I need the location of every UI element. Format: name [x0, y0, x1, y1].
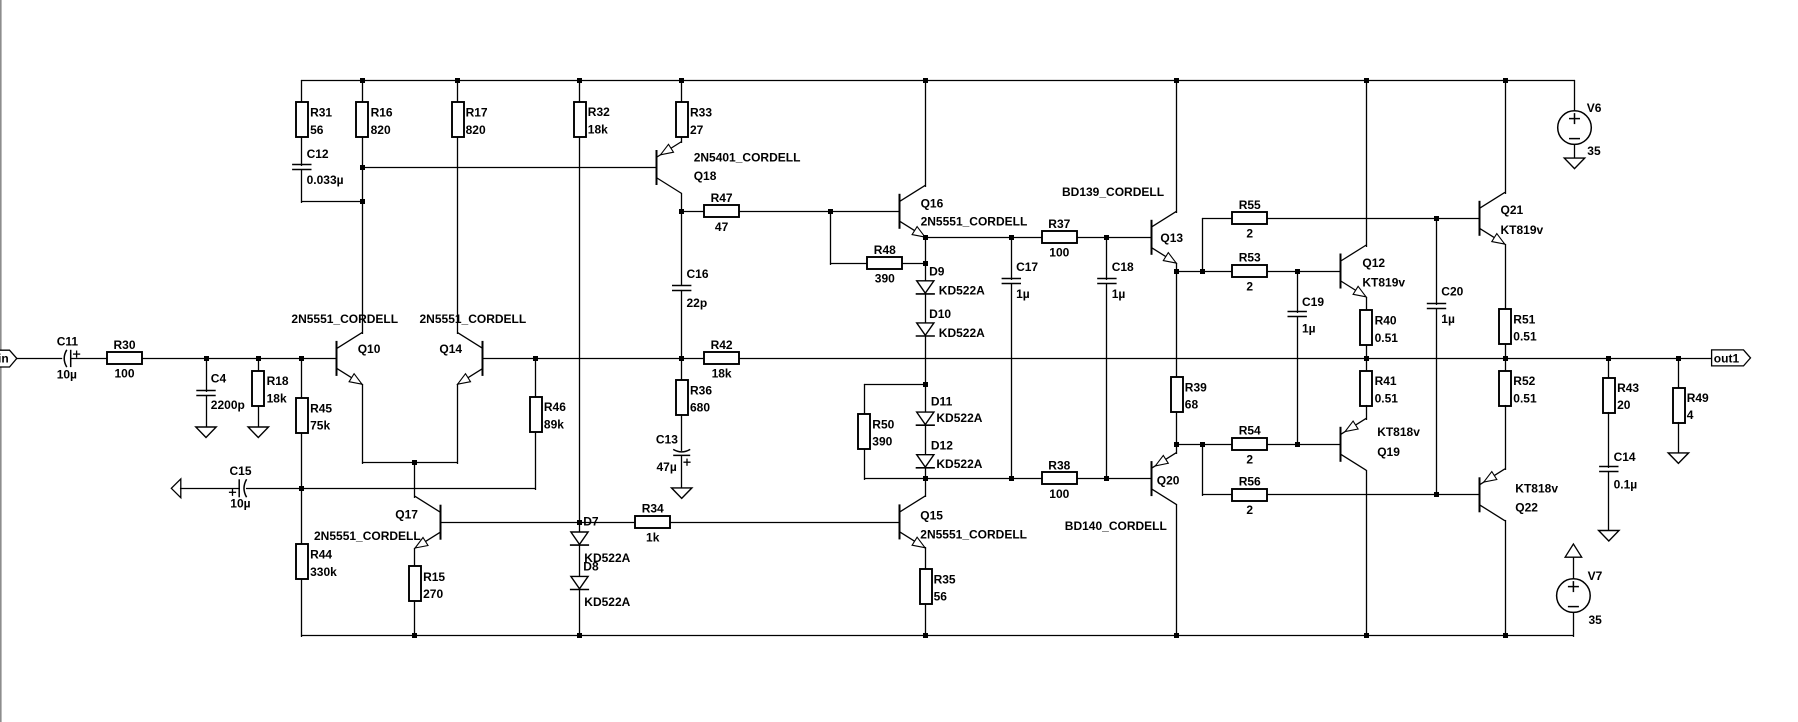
svg-text:R45: R45 [310, 401, 332, 415]
wire V6 top lead [1574, 80, 1576, 112]
resistor R16 820 [356, 102, 393, 137]
capacitor C16 22p [672, 267, 709, 310]
diode D7 KD522A [570, 514, 631, 564]
wire Q15 collector lead [925, 478, 927, 497]
junction R55 branch bottom [1200, 269, 1205, 274]
svg-text:R43: R43 [1617, 381, 1639, 395]
junction top rail R32 [577, 78, 582, 83]
wire R34 line left [579, 522, 636, 524]
junction C16/R36 node on signal line [679, 356, 684, 361]
canvas left border [0, 0, 2, 722]
wire Q13 emitter lead [1176, 263, 1178, 273]
resistor R44 330k [296, 544, 337, 579]
wire D10-D11 lead [925, 336, 927, 414]
capacitor C20 1µ [1427, 285, 1464, 326]
svg-text:89k: 89k [544, 417, 564, 431]
capacitor C4 2200p [196, 371, 245, 412]
resistor R32 18k [574, 102, 610, 137]
wire R50 top horizontal [864, 384, 926, 386]
svg-text:0.51: 0.51 [1375, 392, 1399, 406]
wire R18 column [258, 358, 260, 429]
svg-text:KD522A: KD522A [939, 326, 985, 340]
junction top rail R16 [360, 78, 365, 83]
resistor R56 2 [1232, 475, 1267, 518]
connector arrow C15 [171, 479, 181, 498]
svg-text:35: 35 [1589, 613, 1603, 627]
svg-text:R40: R40 [1375, 314, 1397, 328]
ground V6 ground [1564, 158, 1584, 169]
wire R33 leads [681, 80, 683, 143]
wire R45 column [301, 358, 303, 490]
junction bottom rail R15 [412, 633, 417, 638]
junction driver bottom node [1174, 442, 1179, 447]
transistor Q10 2N5551 [291, 312, 398, 385]
svg-text:BD140_CORDELL: BD140_CORDELL [1065, 519, 1167, 533]
transistor Q15 2N5551 [900, 496, 1028, 548]
wire Q17 emitter lead [414, 548, 416, 637]
svg-text:390: 390 [875, 272, 895, 286]
wire D11-D12 lead [925, 425, 927, 456]
wire D7-D8 lead [579, 545, 581, 578]
junction driver top node [1174, 269, 1179, 274]
svg-text:47: 47 [715, 220, 729, 234]
resistor R36 680 [676, 380, 712, 415]
wire C12 bottom lead [301, 170, 303, 203]
svg-text:R38: R38 [1048, 458, 1070, 472]
junction C20 bottom node [1434, 492, 1439, 497]
svg-text:0.033µ: 0.033µ [307, 173, 344, 187]
junction R18 node [256, 356, 261, 361]
svg-text:56: 56 [934, 590, 948, 604]
svg-text:KD522A: KD522A [939, 283, 985, 297]
svg-text:R54: R54 [1239, 424, 1261, 438]
wire R32 column [579, 80, 581, 524]
svg-text:C4: C4 [211, 371, 227, 385]
diode D11 KD522A [916, 394, 983, 425]
wire Q16 collector lead [925, 80, 927, 187]
wire R46 column [535, 358, 537, 490]
junction top rail Q16 [923, 78, 928, 83]
svg-text:Q18: Q18 [694, 169, 717, 183]
junction D9 anode node [923, 261, 928, 266]
capacitor C14 0.1µ [1599, 450, 1637, 491]
svg-text:2: 2 [1246, 279, 1253, 293]
svg-text:R39: R39 [1185, 380, 1207, 394]
wire R52 bottom lead [1505, 405, 1507, 470]
wire C16 bottom lead [681, 290, 683, 360]
capacitor C17 1µ [1002, 260, 1039, 301]
junction R48 tap [828, 209, 833, 214]
wire R50 bottom vertical [864, 449, 866, 480]
junction tail node [412, 460, 417, 465]
junction C19 top node [1295, 269, 1300, 274]
svg-text:100: 100 [1049, 487, 1069, 501]
svg-text:KT818v: KT818v [1377, 425, 1420, 439]
svg-text:Q19: Q19 [1377, 445, 1400, 459]
wire C17 top lead [1011, 237, 1013, 280]
svg-text:R53: R53 [1239, 251, 1261, 265]
resistor R40 0.51 [1360, 310, 1398, 345]
svg-text:270: 270 [423, 587, 443, 601]
resistor R47 47 [704, 191, 739, 234]
transistor Q21 KT819v [1480, 192, 1544, 244]
wire C12 to R16 column [301, 201, 363, 203]
wire C18 bottom lead [1106, 283, 1108, 480]
ground C14 ground [1599, 531, 1619, 542]
svg-text:1µ: 1µ [1302, 322, 1316, 336]
resistor R17 820 [452, 102, 488, 137]
resistor R30 100 [107, 338, 142, 381]
svg-text:D12: D12 [931, 439, 953, 453]
ground C4 ground [196, 427, 216, 438]
svg-text:0.51: 0.51 [1513, 330, 1537, 344]
wire Q21 emitter lead [1505, 244, 1507, 311]
svg-text:C16: C16 [687, 267, 709, 281]
svg-text:68: 68 [1185, 398, 1199, 412]
svg-text:820: 820 [371, 123, 391, 137]
junction VAS bias top node [923, 235, 928, 240]
svg-text:KD522A: KD522A [936, 411, 982, 425]
junction bottom rail D8 [577, 633, 582, 638]
resistor R41 0.51 [1360, 371, 1398, 406]
wire Q13 collector lead [1176, 80, 1178, 213]
svg-text:V7: V7 [1588, 569, 1603, 583]
wire D9-D10 lead [925, 293, 927, 324]
junction top rail Q21 [1503, 78, 1508, 83]
diode D8 KD522A [570, 560, 631, 609]
wire R31 top lead [301, 80, 303, 166]
svg-text:R34: R34 [642, 502, 664, 516]
svg-text:C15: C15 [230, 464, 252, 478]
diode D9 KD522A [916, 265, 985, 298]
resistor R15 270 [409, 566, 445, 601]
svg-text:390: 390 [872, 435, 892, 449]
wire R52 top lead [1505, 358, 1507, 372]
svg-text:Q10: Q10 [358, 342, 381, 356]
resistor R37 100 [1042, 217, 1077, 260]
diode D12 KD522A [916, 439, 983, 471]
wire R16 column [362, 80, 364, 334]
resistor R46 89k [530, 397, 566, 432]
resistor R49 4 [1673, 388, 1709, 423]
wire R48 branch vertical [830, 211, 832, 265]
svg-text:KT818v: KT818v [1515, 481, 1558, 495]
capacitor C11 10µ [57, 334, 80, 381]
wire C19 bottom lead [1297, 316, 1299, 446]
svg-text:Q14: Q14 [439, 342, 462, 356]
resistor R38 100 [1042, 458, 1077, 501]
junction bottom rail Q20 [1174, 633, 1179, 638]
wire D8 bottom lead [579, 589, 581, 637]
wire R41 bottom lead [1366, 405, 1368, 420]
wire R49 bottom lead [1678, 422, 1680, 454]
svg-text:18k: 18k [588, 123, 608, 137]
svg-text:27: 27 [690, 123, 704, 137]
junction R45 node [299, 356, 304, 361]
svg-text:C18: C18 [1112, 260, 1134, 274]
svg-text:22p: 22p [687, 296, 708, 310]
resistor R34 1k [635, 502, 670, 545]
wire R44 column [301, 488, 303, 637]
wire R51 bottom lead [1505, 344, 1507, 360]
junction top rail R33 [679, 78, 684, 83]
svg-text:2N5401_CORDELL: 2N5401_CORDELL [694, 151, 801, 165]
junction bottom rail R35 [923, 633, 928, 638]
resistor R31 56 [296, 102, 332, 137]
wire C4 top lead [206, 358, 208, 392]
wire Q19 collector lead [1366, 470, 1368, 637]
wire Q15 emitter lead [925, 547, 927, 637]
svg-text:20: 20 [1617, 398, 1631, 412]
junction feedback node [299, 486, 304, 491]
wire Q20 emitter lead [1176, 444, 1178, 454]
capacitor C11 gap [62, 348, 70, 368]
svg-text:C20: C20 [1441, 285, 1463, 299]
capacitor C12 0.033µ [292, 147, 344, 187]
wire Q18 collector lead [681, 193, 683, 213]
wire V7 top lead [1573, 557, 1575, 580]
wire R36 leads [681, 358, 683, 451]
svg-text:Q21: Q21 [1501, 203, 1524, 217]
svg-text:1µ: 1µ [1441, 312, 1455, 326]
svg-text:Q12: Q12 [1362, 256, 1385, 270]
voltage source V7 35 [1557, 569, 1603, 627]
wire Q20 collector lead [1176, 504, 1178, 637]
transistor Q14 2N5551 [420, 312, 527, 385]
transistor Q13 BD139 [1062, 185, 1183, 263]
svg-text:R35: R35 [934, 572, 956, 586]
svg-text:Q13: Q13 [1160, 231, 1183, 245]
junction output node R49 [1676, 356, 1681, 361]
junction C4 node [204, 356, 209, 361]
svg-text:4: 4 [1687, 408, 1694, 422]
svg-text:BD139_CORDELL: BD139_CORDELL [1062, 185, 1164, 199]
transistor Q22 KT818v [1480, 469, 1559, 521]
wire R47 line left [681, 211, 704, 213]
junction Q18 collector node [679, 209, 684, 214]
svg-text:R17: R17 [466, 106, 488, 120]
svg-text:C14: C14 [1614, 450, 1636, 464]
junction top rail R17 [455, 78, 460, 83]
wire R49 top lead [1678, 358, 1680, 389]
svg-text:2200p: 2200p [211, 398, 245, 412]
svg-text:2N5551_CORDELL: 2N5551_CORDELL [291, 312, 398, 326]
svg-text:R50: R50 [872, 417, 894, 431]
connector arrow V7 [1565, 544, 1582, 557]
wire C18 top lead [1106, 237, 1108, 280]
junction C17 bottom node [1009, 476, 1014, 481]
svg-text:D8: D8 [583, 560, 599, 574]
resistor R39 68 [1171, 377, 1207, 412]
svg-text:D11: D11 [931, 394, 953, 408]
svg-text:C11: C11 [57, 334, 79, 348]
wire Q10 emitter lead [362, 384, 364, 464]
svg-text:100: 100 [1049, 246, 1069, 260]
resistor R43 20 [1603, 378, 1639, 413]
junction lower bias node [923, 476, 928, 481]
resistor R51 0.51 [1499, 309, 1537, 344]
svg-text:C13: C13 [656, 433, 678, 447]
svg-text:R41: R41 [1375, 374, 1397, 388]
wire C15 left lead [180, 488, 240, 490]
capacitor C18 1µ [1097, 260, 1134, 301]
resistor R48 390 [867, 243, 902, 286]
transistor Q19 KT818v [1341, 418, 1421, 470]
wire V7 bottom lead [1573, 612, 1575, 637]
wire C4 bottom lead [206, 395, 208, 429]
junction C19 bottom node [1295, 442, 1300, 447]
resistor R33 27 [676, 102, 712, 137]
svg-text:R16: R16 [371, 106, 393, 120]
wire D7 top lead [579, 522, 581, 534]
wire feedback line [246, 488, 536, 490]
wire R55 branch vertical [1202, 218, 1204, 273]
wire R53 line [1176, 271, 1341, 273]
svg-text:1k: 1k [646, 530, 660, 544]
junction C18 bottom node [1104, 476, 1109, 481]
svg-text:C17: C17 [1016, 260, 1038, 274]
resistor R52 0.51 [1499, 371, 1537, 406]
wire Q18 base line [362, 167, 657, 169]
svg-text:Q17: Q17 [395, 507, 418, 521]
wire R54 line [1176, 444, 1341, 446]
junction output node R51 [1503, 356, 1508, 361]
port out1 [1712, 350, 1751, 366]
svg-text:75k: 75k [310, 419, 330, 433]
svg-text:680: 680 [690, 401, 710, 415]
junction C20 top node [1434, 216, 1439, 221]
junction R56 branch top [1200, 442, 1205, 447]
svg-text:KD522A: KD522A [936, 457, 982, 471]
svg-text:R15: R15 [423, 570, 445, 584]
junction C17 top node [1009, 235, 1014, 240]
wire emitter tie line [362, 462, 458, 464]
svg-text:0.51: 0.51 [1375, 331, 1399, 345]
svg-text:R55: R55 [1239, 198, 1261, 212]
resistor R50 390 [858, 414, 895, 449]
wire R50 top vertical [864, 384, 866, 416]
wire C19 top lead [1297, 271, 1299, 313]
svg-text:R42: R42 [711, 338, 733, 352]
junction R50 top node [923, 382, 928, 387]
transistor Q16 2N5551 [900, 185, 1028, 237]
wire V6 bottom lead [1574, 144, 1576, 160]
transistor Q12 KT819v [1341, 245, 1406, 297]
wire input line [16, 358, 337, 360]
capacitor C13 47µ [656, 433, 691, 474]
wire R56 branch vertical [1202, 444, 1204, 496]
svg-text:2N5551_CORDELL: 2N5551_CORDELL [920, 528, 1027, 542]
transistor Q18 2N5401 [656, 142, 800, 194]
svg-text:R44: R44 [310, 548, 332, 562]
svg-text:R33: R33 [690, 106, 712, 120]
wire R38 line [925, 478, 1152, 480]
svg-text:R36: R36 [690, 383, 712, 397]
svg-text:35: 35 [1587, 144, 1601, 158]
svg-text:KD522A: KD522A [584, 595, 630, 609]
svg-text:330k: 330k [310, 565, 337, 579]
wire C20 bottom lead [1436, 308, 1438, 496]
svg-text:18k: 18k [267, 391, 287, 405]
resistor R54 2 [1232, 424, 1267, 467]
wire C14 bottom lead [1608, 471, 1610, 532]
capacitor C19 1µ [1288, 295, 1325, 336]
svg-text:2: 2 [1246, 227, 1253, 241]
wire C16 top lead [681, 211, 683, 285]
svg-text:Q15: Q15 [920, 508, 943, 522]
svg-text:KT819v: KT819v [1501, 223, 1544, 237]
svg-text:KT819v: KT819v [1362, 275, 1405, 289]
svg-text:0.1µ: 0.1µ [1614, 477, 1638, 491]
wire C20 top lead [1436, 218, 1438, 305]
resistor R35 56 [920, 569, 956, 604]
junction D7 node [577, 520, 582, 525]
svg-text:1µ: 1µ [1112, 287, 1126, 301]
svg-text:R46: R46 [544, 400, 566, 414]
wire Q14 emitter lead [457, 384, 459, 464]
wire C13 bottom lead [681, 455, 683, 489]
wire Q22 collector lead [1505, 520, 1507, 637]
wire R17 column [457, 80, 459, 334]
svg-text:D10: D10 [929, 307, 951, 321]
ground C13 ground [672, 488, 692, 499]
wire D12 bottom lead [925, 467, 927, 480]
wire R55 line [1202, 218, 1480, 220]
svg-text:R32: R32 [588, 105, 610, 119]
svg-text:0.51: 0.51 [1513, 392, 1537, 406]
svg-text:R51: R51 [1513, 312, 1535, 326]
junction C18 top node [1104, 235, 1109, 240]
resistor R55 2 [1232, 198, 1267, 241]
svg-text:1µ: 1µ [1016, 287, 1030, 301]
wire tail lead [414, 462, 416, 498]
wire negative supply rail [301, 635, 1574, 637]
svg-text:820: 820 [466, 123, 486, 137]
wire R34 line right [670, 522, 900, 524]
svg-text:Q22: Q22 [1515, 501, 1538, 515]
wire Q12 collector lead [1366, 80, 1368, 247]
ground R18 ground [248, 427, 268, 438]
svg-text:R52: R52 [1513, 374, 1535, 388]
wire R50 bottom horizontal [864, 478, 926, 480]
wire Q12 emitter lead [1366, 297, 1368, 312]
svg-text:D9: D9 [929, 265, 945, 279]
junction bottom rail Q22 [1503, 633, 1508, 638]
svg-text:10µ: 10µ [57, 368, 77, 382]
transistor Q17 2N5551 [314, 496, 441, 548]
wire Q21 collector lead [1505, 80, 1507, 194]
diode D10 KD522A [916, 307, 985, 340]
wire C17 bottom lead [1011, 283, 1013, 480]
junction C12 tap [360, 199, 365, 204]
resistor R18 18k [252, 371, 289, 406]
svg-text:2: 2 [1246, 452, 1253, 466]
svg-text:R37: R37 [1048, 217, 1070, 231]
wire signal line to output [482, 358, 1712, 360]
svg-text:47µ: 47µ [657, 460, 677, 474]
junction top rail Q13 [1174, 78, 1179, 83]
svg-text:2N5551_CORDELL: 2N5551_CORDELL [314, 529, 421, 543]
svg-text:56: 56 [310, 123, 324, 137]
svg-text:R48: R48 [874, 243, 896, 257]
junction output node R43 [1606, 356, 1611, 361]
svg-text:2N5551_CORDELL: 2N5551_CORDELL [420, 312, 527, 326]
junction Q18 base line at R16 column [360, 165, 365, 170]
svg-text:18k: 18k [712, 367, 732, 381]
svg-text:R56: R56 [1239, 475, 1261, 489]
port in [0, 350, 17, 367]
resistor R42 18k [704, 338, 739, 381]
